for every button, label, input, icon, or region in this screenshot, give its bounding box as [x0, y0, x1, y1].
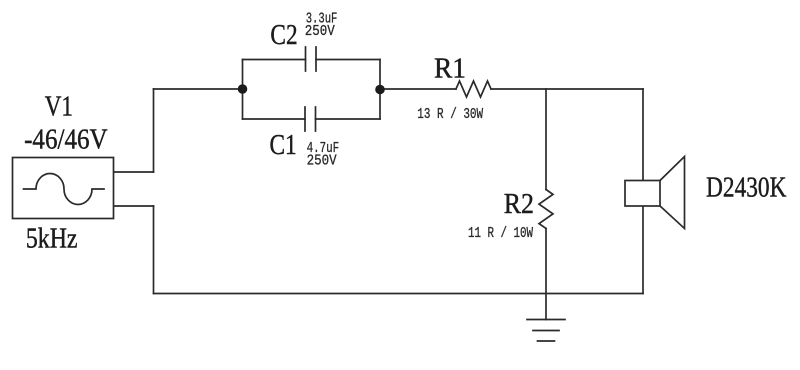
- wire left riser: [153, 89, 155, 172]
- V1 sine wave symbol: [24, 174, 105, 205]
- wire cap bottom branch left: [243, 118, 306, 120]
- svg-text:-46/46V: -46/46V: [24, 124, 108, 156]
- svg-text:R1: R1: [434, 53, 466, 85]
- svg-text:13 R / 30W: 13 R / 30W: [417, 107, 483, 123]
- node A junction dot: [238, 84, 248, 94]
- wire right vertical: [642, 89, 644, 294]
- capacitor C2: [306, 47, 317, 71]
- svg-text:R2: R2: [504, 188, 534, 220]
- wire node B to R1: [380, 88, 456, 90]
- wire to node A: [154, 88, 243, 90]
- svg-text:C2: C2: [270, 19, 297, 51]
- wire junction down to R2: [545, 89, 547, 190]
- wire bottom rail: [154, 293, 644, 295]
- svg-text:250V: 250V: [305, 24, 335, 40]
- resistor R1: [456, 81, 491, 97]
- wire cap bottom branch right: [316, 118, 381, 120]
- svg-text:11 R / 10W: 11 R / 10W: [468, 226, 533, 242]
- resistor R2: [539, 190, 553, 229]
- speaker D2430K driver box: [625, 181, 660, 207]
- svg-text:5kHz: 5kHz: [26, 223, 78, 255]
- wire R1 to right corner: [491, 88, 643, 90]
- wire V1 bottom stub: [114, 205, 154, 207]
- wire cap top branch right: [316, 59, 380, 61]
- wire cap network left edge: [242, 60, 244, 120]
- node B junction dot: [375, 85, 385, 95]
- wire R2 to ground: [545, 229, 547, 320]
- capacitor C1: [305, 107, 316, 131]
- svg-text:D2430K: D2430K: [706, 171, 787, 203]
- svg-text:C1: C1: [270, 129, 297, 161]
- wire left bottom riser: [153, 206, 155, 294]
- svg-text:V1: V1: [45, 91, 73, 123]
- speaker D2430K horn: [660, 157, 685, 229]
- ground: [527, 320, 565, 342]
- voltage source V1 box: [13, 158, 114, 219]
- wire cap top branch left: [243, 59, 306, 61]
- wire V1 top stub: [114, 171, 154, 173]
- svg-text:250V: 250V: [307, 154, 337, 170]
- wire cap network right edge: [379, 60, 381, 120]
